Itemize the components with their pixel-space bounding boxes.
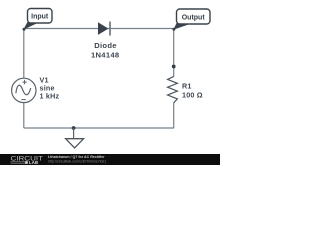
svg-text:Diode: Diode [94,41,117,50]
svg-text:Output: Output [182,14,206,21]
node Output flag [172,9,210,31]
svg-text:http://circuitlab.com/c/67993m: http://circuitlab.com/c/67993me7k3rj [48,160,106,164]
svg-text:100 Ω: 100 Ω [182,91,203,100]
svg-text:1 kHz: 1 kHz [40,92,60,101]
CircuitLab logo [11,155,44,164]
wire top (node Input to node Output) [24,28,174,30]
ground [66,128,84,148]
diode D1 [98,22,110,36]
label R1 value [182,81,203,99]
wire left vertical lower [23,103,25,129]
svg-text:t.thatchanon / Q7 for AC Recti: t.thatchanon / Q7 for AC Rectifier [48,155,105,159]
wire right vertical lower [173,103,175,128]
svg-text:R1: R1 [182,81,192,90]
footer bar [0,154,220,165]
junction dot ground [72,126,76,130]
node Input flag [23,9,53,31]
wire left vertical upper [23,29,25,79]
junction dot right [172,65,176,69]
footer credit text [48,155,106,164]
svg-text:1N4148: 1N4148 [91,50,119,59]
voltage source V1 [12,78,36,102]
wire bottom [24,127,174,129]
resistor R1 [168,76,178,102]
svg-text:LAB: LAB [29,160,38,165]
wire right vertical upper [173,29,175,77]
svg-text:Input: Input [31,14,49,21]
label Diode 1N4148 [91,41,119,59]
label V1 value [40,75,60,100]
